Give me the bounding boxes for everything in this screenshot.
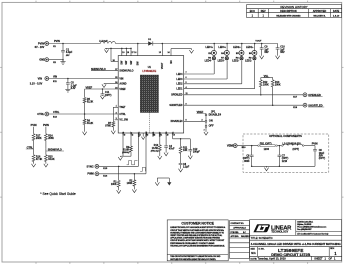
- svg-text:47nF: 47nF: [169, 148, 175, 151]
- svg-text:LED2: LED2: [176, 83, 183, 86]
- size and part row: [251, 247, 338, 257]
- svg-text:LED3+: LED3+: [218, 46, 226, 49]
- svg-text:LED3-: LED3-: [218, 60, 225, 63]
- resistor R9 53.6K (1MHz): [118, 133, 132, 160]
- capacitor C5 2.2uF 6.3V: [65, 79, 77, 93]
- svg-text:52.3K: 52.3K: [87, 101, 94, 104]
- wire SW drop to pin 16: [134, 44, 139, 66]
- svg-text:27: 27: [115, 69, 117, 71]
- svg-text:OF: OF: [329, 257, 333, 260]
- resistor R17 202K: [32, 134, 42, 149]
- svg-text:100K: 100K: [275, 83, 281, 86]
- NC pin wire to ground: [168, 49, 194, 64]
- svg-text:ECO: ECO: [250, 10, 255, 13]
- resistor R11 10K: [179, 139, 188, 164]
- svg-text:9: 9: [186, 103, 187, 105]
- svg-text:3: 3: [116, 118, 117, 120]
- stub pin 22: [152, 133, 154, 137]
- capacitor C12 100pF: [188, 139, 200, 159]
- wire SW node: [116, 43, 149, 45]
- ground below JP1: [204, 127, 208, 135]
- svg-text:0603: 0603: [244, 160, 250, 163]
- svg-text:100K: 100K: [263, 83, 269, 86]
- svg-text:CTRL: CTRL: [37, 112, 44, 116]
- wire CTRL: [49, 111, 127, 118]
- svg-text:DESCRIPTION: DESCRIPTION: [280, 10, 297, 13]
- turret pair LED3: [218, 44, 230, 63]
- svg-text:(OPT): (OPT): [105, 94, 112, 97]
- IC bottom pin numbers: [124, 134, 175, 136]
- svg-text:11: 11: [186, 93, 188, 95]
- svg-text:CONTRACT NO.: CONTRACT NO.: [231, 222, 245, 225]
- svg-text:28: 28: [113, 60, 115, 62]
- wire SYNC pin: [137, 133, 139, 166]
- svg-text:6: 6: [186, 77, 187, 79]
- svg-text:APP ENG.: APP ENG.: [231, 235, 240, 238]
- svg-text:APPROVALS: APPROVALS: [233, 227, 246, 230]
- svg-text:VC_SW: VC_SW: [119, 119, 128, 122]
- rotated bottom pin names: [123, 131, 175, 137]
- svg-text:LED1-: LED1-: [245, 60, 252, 63]
- svg-text:1206: 1206: [264, 148, 270, 151]
- wire LED2 pin 5: [176, 61, 241, 86]
- title block: [250, 220, 342, 261]
- svg-text:3.3µF: 3.3µF: [66, 51, 73, 54]
- svg-text:(1MHz): (1MHz): [122, 152, 129, 154]
- svg-text:40.2K: 40.2K: [87, 122, 94, 125]
- svg-text:PVIN: PVIN: [43, 124, 49, 127]
- svg-text:VOUT: VOUT: [161, 62, 164, 69]
- svg-text:LED2-: LED2-: [232, 60, 239, 63]
- date sheet row: [251, 256, 337, 260]
- wire VIN: [49, 76, 124, 83]
- capacitor C1 3.3uF 25V: [61, 44, 73, 60]
- svg-text:CIRCUIT BOARD LAYOUT MAY SIGNI: CIRCUIT BOARD LAYOUT MAY SIGNIFICANTLY A…: [170, 239, 225, 242]
- svg-text:2: 2: [202, 120, 203, 122]
- svg-text:PCB DES.: PCB DES.: [231, 232, 240, 234]
- pin 3 VC stub: [115, 118, 129, 121]
- capacitor C6 (OPT) 0603: [243, 146, 254, 167]
- svg-text:5: 5: [186, 82, 187, 84]
- capacitor C5c 2.2nF: [179, 163, 190, 172]
- wire VOUT rail: [153, 40, 278, 44]
- wire SHORTLED pin 9: [169, 103, 303, 108]
- capacitor C11 (OPT) on VREF: [100, 89, 111, 99]
- capacitor C4 47nF: [164, 133, 175, 156]
- turret E11 VIN input: [30, 76, 49, 85]
- svg-text:APPROVED: APPROVED: [313, 10, 327, 13]
- svg-text:VREF: VREF: [119, 88, 126, 91]
- svg-text:50V: 50V: [280, 51, 285, 54]
- svg-text:DATE:: DATE:: [251, 257, 258, 260]
- svg-text:976K: 976K: [105, 125, 111, 128]
- inductor L2 LPS4018-331 (OPT): [282, 142, 316, 151]
- capacitor C8 10uF 50V (OPT): [312, 143, 326, 167]
- wire VEMI to filter: [237, 145, 258, 149]
- wire LED1 pin 4: [176, 61, 254, 91]
- wire filter ground rail: [251, 166, 315, 171]
- svg-text:ON: ON: [209, 120, 213, 123]
- turret E15 SYNC: [86, 164, 98, 168]
- turret E16 PWM: [87, 172, 98, 176]
- turret E13 CTRL input: [37, 112, 48, 116]
- svg-text:202K: 202K: [36, 137, 42, 140]
- svg-text:REV: REV: [261, 10, 266, 13]
- svg-text:TECHNOLOGY APPLICATIONS ENGINE: TECHNOLOGY APPLICATIONS ENGINEERING FOR …: [170, 244, 225, 247]
- svg-text:TECHNOLOGY: TECHNOLOGY: [271, 230, 288, 234]
- svg-text:DATE: DATE: [333, 10, 340, 13]
- svg-text:VERIFY PROPER AND RELIABLE OPE: VERIFY PROPER AND RELIABLE OPERATION IN …: [170, 234, 223, 237]
- svg-text:DISABLE4: DISABLE4: [171, 120, 183, 123]
- svg-text:1: 1: [116, 106, 117, 108]
- svg-text:18: 18: [127, 52, 129, 54]
- node PVIN divider A: [31, 124, 37, 134]
- op-amp U1 LT3599EFE body: [118, 56, 184, 133]
- wire VC compensation: [173, 133, 191, 140]
- resistor R2 100K: [127, 174, 137, 193]
- svg-text:(OPT): (OPT): [293, 148, 300, 151]
- resistor R5 52.3K: [83, 89, 93, 114]
- svg-text:OPTIONAL COMPONENTS: OPTIONAL COMPONENTS: [269, 134, 302, 138]
- svg-text:3: 3: [204, 129, 205, 131]
- svg-text:LED1: LED1: [176, 88, 183, 91]
- ground arrow near SW caps: [104, 48, 131, 52]
- svg-text:3.1V - 5.5V: 3.1V - 5.5V: [30, 82, 43, 85]
- node CTRL net label: [26, 146, 34, 149]
- resistor R15 64.9K: [44, 149, 55, 167]
- svg-text:CTRL: CTRL: [53, 111, 60, 114]
- svg-text:LED1+: LED1+: [246, 46, 254, 49]
- wire DISABLE4 pin 8: [171, 120, 206, 124]
- svg-text:SHDN/UVLO: SHDN/UVLO: [119, 70, 133, 73]
- IC top pin stubs 19 18 17 SW: [121, 48, 134, 65]
- pin 26 AGND to ground: [102, 82, 127, 88]
- wire LED3 pin 6: [176, 61, 227, 81]
- turret E17 OPENLED: [303, 93, 323, 97]
- wire VOUT drop to pin 15: [159, 44, 164, 70]
- svg-text:PERFORMANCE OR RELIABILITY. CO: PERFORMANCE OR RELIABILITY. CONTACT LINE…: [170, 242, 215, 245]
- resistor R13 100K: [271, 78, 281, 106]
- svg-text:* See Quick Start Guide: * See Quick Start Guide: [40, 192, 76, 196]
- pin 27 SHDN/UVLO net label: [91, 68, 134, 72]
- svg-text:VIN: VIN: [38, 76, 42, 80]
- svg-text:2: 2: [116, 112, 117, 114]
- svg-text:N/A: N/A: [251, 251, 256, 255]
- wire SYNC: [99, 166, 139, 171]
- ferrite bead FB1 (OPT) 1206: [258, 142, 282, 151]
- svg-text:SHEET: SHEET: [314, 257, 323, 260]
- svg-text:PVIN: PVIN: [31, 124, 37, 127]
- svg-text:Tuesday, April 13, 2010: Tuesday, April 13, 2010: [258, 256, 287, 260]
- svg-text:6V - 16V: 6V - 16V: [35, 46, 45, 49]
- svg-text:64.9K: 64.9K: [48, 158, 55, 161]
- turret E2 GND input: [39, 58, 64, 65]
- svg-text:VEMI: VEMI: [227, 144, 234, 148]
- resistor R14 205K: [45, 134, 55, 149]
- node VSL: [261, 75, 273, 78]
- svg-text:19: 19: [122, 52, 124, 54]
- wire LED4 pin 7: [176, 61, 214, 76]
- svg-text:AGND: AGND: [119, 82, 126, 85]
- svg-text:1-8-10: 1-8-10: [333, 15, 340, 17]
- svg-text:17: 17: [132, 52, 134, 54]
- svg-text:VIN: VIN: [53, 76, 57, 79]
- pin 1 TSET with resistor R7 976K: [105, 106, 126, 134]
- svg-text:LED2+: LED2+: [233, 46, 241, 49]
- svg-text:25V: 25V: [65, 55, 70, 57]
- svg-text:LT3599EFE: LT3599EFE: [142, 69, 156, 73]
- capacitor C10 1uF 50V: [276, 44, 286, 59]
- svg-text:(80mA): (80mA): [151, 150, 159, 152]
- wire OPENLED pin 11: [171, 93, 303, 98]
- resistor R12 100K: [259, 78, 269, 95]
- svg-text:VIN: VIN: [119, 77, 123, 80]
- address block: [296, 220, 342, 235]
- svg-text:VOUT: VOUT: [255, 40, 262, 42]
- svg-text:PVIN*: PVIN*: [38, 41, 45, 45]
- svg-text:8: 8: [186, 120, 187, 122]
- svg-text:16.5K: 16.5K: [152, 147, 159, 150]
- svg-text:CUSTOMER NOTICE: CUSTOMER NOTICE: [181, 221, 214, 225]
- turret pair LED2: [232, 44, 244, 63]
- resistor R10 16.5K (80mA) FSET: [151, 133, 162, 159]
- svg-text:100pF: 100pF: [193, 151, 200, 154]
- customer notice box: [167, 220, 228, 261]
- svg-text:SHORTLED: SHORTLED: [308, 103, 322, 107]
- svg-text:GND: GND: [39, 58, 45, 62]
- svg-text:205K: 205K: [48, 137, 54, 140]
- resistor R6 40.2K to ground: [83, 113, 94, 135]
- svg-text:SUPPLIED FOR USE WITH LINEAR T: SUPPLIED FOR USE WITH LINEAR TECHNOLOGY …: [170, 258, 216, 261]
- svg-text:THIS CIRCUIT IS PROPRIETARY TO: THIS CIRCUIT IS PROPRIETARY TO LINEAR TE…: [170, 255, 221, 258]
- wire PVIN rail: [49, 40, 101, 48]
- resistor R1 100K: [111, 166, 121, 193]
- approvals block: [230, 221, 251, 259]
- ground tie staple: [155, 178, 171, 186]
- revision history table: [247, 5, 342, 18]
- svg-text:REVISION HISTORY: REVISION HISTORY: [280, 5, 307, 9]
- turret pair LED1: [245, 44, 257, 63]
- capacitor C7 (OPT) 1210: [278, 146, 289, 167]
- svg-text:APPLICATION. COMPONENT SUBSTIT: APPLICATION. COMPONENT SUBSTITUTION AND …: [170, 237, 220, 240]
- resistor R16 37.4K: [32, 149, 43, 167]
- capacitor C9 1uF 50V: [260, 44, 270, 59]
- svg-text:SHORTLED: SHORTLED: [169, 104, 182, 107]
- svg-text:2.2µF: 2.2µF: [183, 166, 190, 169]
- svg-text:LED3: LED3: [176, 78, 183, 81]
- svg-text:SYNC: SYNC: [86, 164, 93, 168]
- svg-text:CIRCUIT THAT MEETS CUSTOMER-SU: CIRCUIT THAT MEETS CUSTOMER-SUPPLIED SPE…: [170, 229, 224, 232]
- svg-text:SHDN/UVLO: SHDN/UVLO: [91, 68, 106, 71]
- node VREF to JP1: [197, 111, 207, 114]
- svg-text:OFF: OFF: [209, 125, 214, 128]
- exposed pad (hatched): [140, 75, 158, 133]
- svg-text:16: 16: [134, 52, 136, 54]
- svg-text:LED4: LED4: [176, 73, 183, 76]
- jumper JP1 DISABLE4: [205, 110, 221, 127]
- pwm square wave glyph: [140, 167, 145, 171]
- svg-text:OPENLED: OPENLED: [308, 93, 321, 97]
- svg-text:15: 15: [159, 52, 161, 54]
- svg-text:CTRL: CTRL: [119, 113, 126, 116]
- diode D1: [148, 39, 153, 45]
- svg-text:TSET: TSET: [119, 106, 126, 109]
- svg-text:DEMO CIRCUIT 1372B: DEMO CIRCUIT 1372B: [271, 252, 310, 257]
- wire PWM pin: [145, 133, 147, 174]
- svg-text:NC: NC: [170, 60, 173, 64]
- pin 24 VREF wire: [85, 86, 127, 91]
- sync square wave glyph: [127, 161, 138, 165]
- svg-text:10K: 10K: [183, 149, 188, 152]
- svg-text:1210: 1210: [282, 160, 288, 163]
- svg-text:4-CHANNEL 120mA LED DRIVER WIT: 4-CHANNEL 120mA LED DRIVER WITH +/-1.5% …: [251, 242, 342, 246]
- node PVIN divider B: [43, 124, 49, 134]
- svg-text:PWM: PWM: [87, 172, 93, 176]
- svg-text:HOWEVER, IT REMAINS THE CUSTOM: HOWEVER, IT REMAINS THE CUSTOMER'S RESPO…: [170, 231, 224, 234]
- svg-text:OPENLED: OPENLED: [171, 94, 183, 97]
- svg-text:RELEASED WITH CHANGES: RELEASED WITH CHANGES: [276, 14, 301, 17]
- title row: [251, 237, 342, 246]
- node SHDN/UVLO net label: [46, 148, 64, 151]
- svg-text:IC NO.: IC NO.: [259, 248, 265, 250]
- svg-text:100K: 100K: [111, 183, 117, 186]
- ground pin arrow under IC: [141, 133, 145, 139]
- svg-text:LTC Confidential For Customer: LTC Confidential For Customer Use Only: [297, 232, 329, 235]
- svg-text:6.3V: 6.3V: [71, 87, 76, 90]
- turret E19 VEMI: [227, 144, 237, 148]
- note see quick start guide: [40, 192, 76, 196]
- ground (bar) below C1: [60, 60, 65, 64]
- svg-text:LINEAR TECHNOLOGY HAS MADE A B: LINEAR TECHNOLOGY HAS MADE A BEST EFFORT…: [170, 226, 226, 229]
- optional components dashed box: [243, 134, 329, 172]
- turret E1 PVIN input: [35, 41, 49, 49]
- svg-text:LED4-: LED4-: [205, 60, 212, 63]
- svg-text:DISABLE4: DISABLE4: [209, 114, 222, 117]
- svg-text:26: 26: [115, 82, 117, 84]
- svg-text:50V: 50V: [264, 51, 269, 54]
- wire PWM: [99, 173, 146, 178]
- svg-text:Fax: (408)434-0507: Fax: (408)434-0507: [297, 228, 311, 231]
- logo Linear Technology: [253, 224, 292, 233]
- svg-text:100K: 100K: [127, 182, 133, 185]
- inductor L1 10uH: [99, 41, 116, 44]
- svg-text:VREF: VREF: [86, 86, 93, 89]
- svg-text:PVIN: PVIN: [312, 143, 318, 146]
- svg-text:25: 25: [115, 77, 117, 79]
- svg-text:(OPT): (OPT): [319, 157, 326, 160]
- svg-text:PVIN: PVIN: [54, 40, 60, 43]
- svg-text:WALKER B.: WALKER B.: [313, 14, 326, 17]
- turret pair LED4: [205, 44, 217, 63]
- svg-text:7: 7: [186, 72, 187, 74]
- wire pin 28: [110, 48, 118, 62]
- turret E18 SHORTLED: [303, 103, 324, 107]
- svg-text:TITLE: SCHEMATIC: TITLE: SCHEMATIC: [251, 237, 273, 240]
- svg-text:SIZE: SIZE: [251, 248, 256, 250]
- svg-text:37.4K: 37.4K: [36, 158, 43, 161]
- svg-text:LED4+: LED4+: [205, 46, 213, 49]
